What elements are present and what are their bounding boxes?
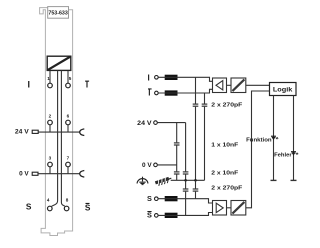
- svg-text:0 V: 0 V: [19, 171, 29, 178]
- filter I: [165, 75, 178, 80]
- label S-bar right: [85, 202, 91, 212]
- clamp row3: [80, 171, 85, 178]
- 0V input: [142, 162, 157, 169]
- filter S-bar: [165, 213, 178, 218]
- pin 8: [64, 198, 69, 211]
- wire row2 24V: [38, 131, 79, 133]
- capacitor line I: [193, 77, 199, 180]
- pin 5: [66, 76, 72, 88]
- output S-bar: [147, 211, 158, 220]
- pin 2: [48, 114, 53, 133]
- svg-text:I: I: [28, 80, 31, 90]
- svg-text:S: S: [147, 194, 152, 203]
- wire S-channel to Logik: [246, 91, 270, 208]
- svg-text:2 x 270pF: 2 x 270pF: [211, 185, 243, 191]
- label I-bar right: [85, 80, 89, 89]
- svg-text:0 V: 0 V: [142, 162, 152, 169]
- svg-text:24 V: 24 V: [137, 120, 152, 127]
- filter I-bar: [165, 90, 178, 95]
- wire I: [158, 77, 212, 81]
- wire OC1 to Logik: [246, 84, 270, 86]
- wire U3 to OC2: [227, 207, 232, 209]
- svg-text:4: 4: [47, 198, 50, 203]
- svg-text:7: 7: [67, 156, 70, 161]
- svg-text:5: 5: [69, 76, 72, 81]
- svg-text:6: 6: [67, 114, 70, 119]
- svg-text:2 x 270pF: 2 x 270pF: [211, 102, 243, 108]
- pin 6: [66, 114, 71, 133]
- wire pin1 to box: [49, 71, 51, 84]
- wire 24V: [157, 122, 185, 124]
- Funktion line: [271, 96, 277, 181]
- receiver U1: [213, 78, 227, 93]
- bus wire left: [52, 71, 58, 207]
- cap line S-bar: [183, 180, 189, 215]
- svg-text:I: I: [148, 88, 150, 97]
- wire 0V: [157, 164, 176, 166]
- cap chain 24V-0V: [174, 123, 180, 181]
- clamp row2: [80, 129, 85, 136]
- svg-text:Logik: Logik: [273, 87, 293, 94]
- wire S: [158, 199, 212, 203]
- earth symbol: [137, 177, 148, 185]
- wire S-bar: [158, 213, 212, 216]
- svg-text:I: I: [148, 73, 150, 82]
- 24V connector plug: [15, 129, 38, 136]
- wire row3 0V: [38, 173, 80, 175]
- pin 7: [66, 156, 71, 174]
- svg-text:2: 2: [49, 114, 52, 119]
- junction dot bus-I: [194, 179, 197, 182]
- LED Fehler: [291, 152, 298, 156]
- input I: [148, 73, 159, 82]
- input I-bar: [148, 88, 158, 97]
- svg-text:3: 3: [49, 156, 52, 161]
- module outline 753-633: [40, 8, 73, 236]
- ground bus: [171, 179, 205, 181]
- chassis ground symbol: [155, 176, 173, 187]
- svg-text:S: S: [147, 211, 152, 220]
- svg-text:2 x 10nF: 2 x 10nF: [211, 170, 239, 176]
- svg-text:1 x 10nF: 1 x 10nF: [211, 142, 239, 148]
- svg-text:Fehler: Fehler: [274, 152, 292, 158]
- capacitor line I-bar: [202, 93, 208, 180]
- wire I-bar: [158, 89, 212, 93]
- bus wire right: [61, 71, 65, 207]
- svg-text:I: I: [86, 80, 88, 89]
- Logik U2: [270, 83, 297, 96]
- wire pin5 to box: [67, 71, 69, 84]
- svg-text:753-633: 753-633: [48, 11, 67, 17]
- junction dot bus-24V: [184, 179, 187, 182]
- output S: [147, 194, 158, 203]
- pin 3: [48, 156, 53, 174]
- 0V connector plug: [19, 171, 38, 178]
- driver U3: [213, 201, 227, 216]
- LED Funktion: [271, 136, 278, 140]
- 24V input: [137, 120, 157, 127]
- wire U1 to OC1: [227, 84, 232, 86]
- Fehler line: [291, 96, 297, 181]
- svg-text:Funktion: Funktion: [246, 137, 272, 143]
- optocoupler OC2: [231, 201, 246, 216]
- pin 4: [47, 198, 52, 211]
- electronics box (hatched): [47, 56, 71, 70]
- svg-text:S: S: [85, 202, 91, 212]
- cap line S: [193, 180, 199, 198]
- cap chain 24V line: [183, 123, 189, 181]
- filter S: [165, 196, 178, 201]
- label box 753-633: [48, 7, 69, 19]
- svg-text:S: S: [26, 201, 32, 211]
- svg-text:8: 8: [66, 198, 69, 203]
- pin 1: [47, 76, 52, 88]
- svg-text:1: 1: [47, 76, 50, 81]
- svg-text:24 V: 24 V: [15, 129, 30, 136]
- optocoupler OC1: [231, 78, 246, 93]
